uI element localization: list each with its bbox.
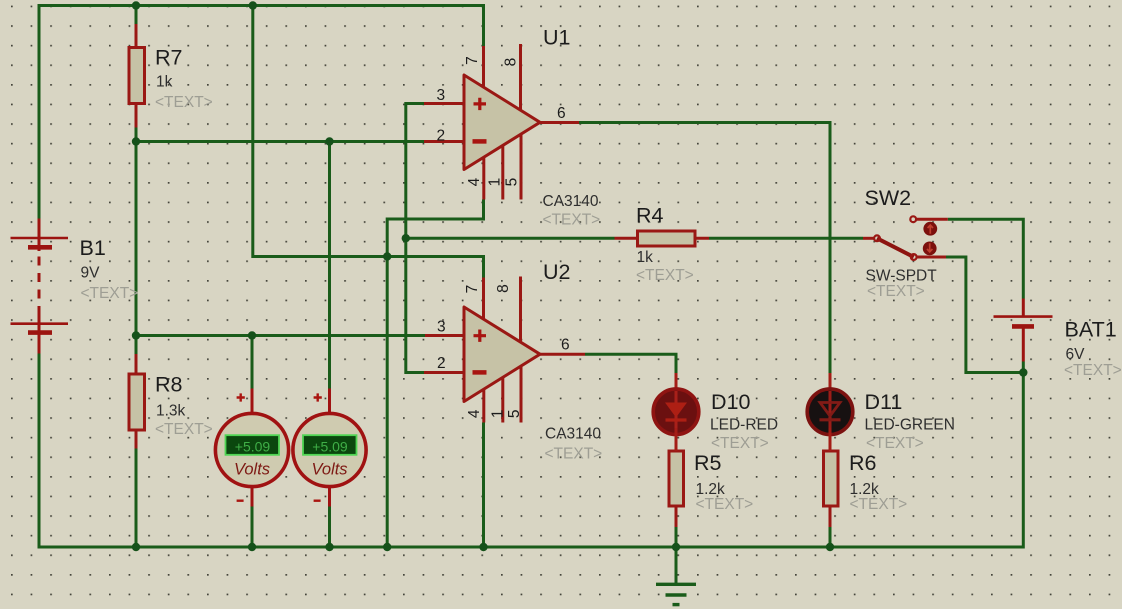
junction top rail at R7 [132,1,140,9]
ground symbol [656,584,696,604]
svg-text:Volts: Volts [311,461,347,479]
wire U1 pin4 jog down to ground rail [387,200,483,548]
switch SW2 down actuator [923,242,937,256]
svg-text:1.3k: 1.3k [156,403,186,420]
resistor R8 [129,354,145,449]
wire R4 right to switch pole [709,237,863,240]
wire left rail + top rail + U1 pin7 drop [39,6,484,219]
resistor R4 [615,231,710,246]
junction ground rail x387 [383,543,391,551]
wire bottom rail + left drop + right riser [39,353,1023,547]
LED D10 (red) [653,373,699,451]
wire U2 pin4 to ground rail [482,423,485,548]
svg-text:R8: R8 [155,373,183,397]
svg-text:<TEXT>: <TEXT> [155,421,213,438]
junction net A at R4 wire [402,234,410,242]
svg-text:6: 6 [561,337,570,354]
junction H3 at R8 top [132,331,140,339]
junction top rail at x252.8 [249,1,257,9]
battery B1 [11,219,69,354]
resistor R6 [824,434,839,527]
op-amp U1 [424,44,579,200]
wire voltmeter2 minus lead [328,507,331,548]
svg-text:6V: 6V [1066,346,1086,363]
svg-text:LED-RED: LED-RED [710,417,778,434]
svg-text:9V: 9V [81,265,101,282]
wire R8 top stub [135,336,138,355]
svg-text:CA3140: CA3140 [545,426,601,443]
wire ground stub [675,547,678,584]
junction H2 at voltmeter2 [325,137,333,145]
svg-text:R4: R4 [636,204,664,228]
svg-text:R7: R7 [155,45,182,69]
svg-text:+5.09: +5.09 [312,438,348,454]
junction ground rail voltmeter1 [248,543,256,551]
svg-text:6: 6 [557,105,566,122]
svg-text:D10: D10 [711,390,750,414]
voltmeter VM1 [215,389,288,507]
svg-text:<TEXT>: <TEXT> [155,94,213,111]
svg-text:8: 8 [495,284,512,293]
svg-text:R5: R5 [694,451,722,475]
svg-text:B1: B1 [80,236,106,260]
svg-text:1: 1 [486,178,503,187]
junction BAT1 bottom [1019,368,1027,376]
wire R7 bottom link [135,128,138,142]
svg-text:4: 4 [466,409,483,418]
svg-text:1: 1 [490,409,507,418]
wire R8 bottom [135,449,138,548]
junction ground rail R8 [132,543,140,551]
svg-text:<TEXT>: <TEXT> [711,435,769,452]
svg-text:CA3140: CA3140 [543,193,599,210]
svg-text:7: 7 [464,56,481,65]
svg-text:<TEXT>: <TEXT> [81,285,139,302]
svg-text:5: 5 [504,178,521,187]
junction ground rail R6 [826,543,834,551]
wire node H3: R8 to U2 pin3 [136,334,425,337]
svg-text:3: 3 [437,319,446,336]
svg-text:3: 3 [437,87,446,104]
svg-text:U1: U1 [543,25,570,49]
svg-text:LED-GREEN: LED-GREEN [865,417,955,434]
wire U2 output to D10 [585,354,676,373]
resistor R5 [669,434,684,527]
wire R6 bottom [829,527,832,547]
wire R7 top stub [135,6,138,25]
wire left mid rail x136 [135,142,138,336]
battery BAT1 [994,299,1053,362]
junction H2 at R7 bottom [132,137,140,145]
wire R5 bottom [675,527,678,547]
junction ground rail R5 ground [672,543,680,551]
svg-text:<TEXT>: <TEXT> [696,496,754,513]
switch SW2 up actuator [923,222,937,236]
svg-text:5: 5 [506,409,523,418]
svg-text:<TEXT>: <TEXT> [866,435,924,452]
junction ground rail U2 pin4 [479,543,487,551]
svg-text:+5.09: +5.09 [235,438,271,454]
svg-text:<TEXT>: <TEXT> [867,283,925,300]
svg-text:BAT1: BAT1 [1065,318,1117,342]
svg-text:<TEXT>: <TEXT> [850,496,908,513]
svg-text:U2: U2 [543,260,570,284]
wire R4 left net [406,237,615,240]
wire switch throw2 to BAT1 bottom junction [946,257,1023,373]
svg-text:SW2: SW2 [865,186,912,210]
wire voltmeter1 plus lead [251,336,254,389]
svg-text:D11: D11 [865,390,903,414]
switch SW2 [863,216,948,260]
wire net A: U1 pin3 to U2 pin2 [406,104,424,373]
svg-text:1k: 1k [637,249,654,266]
wire switch throw1 to BAT1 top [948,219,1024,298]
svg-text:SW-SPDT: SW-SPDT [866,267,938,284]
op-amp U2 [424,277,585,423]
svg-text:<TEXT>: <TEXT> [636,267,694,284]
svg-text:1k: 1k [156,74,173,91]
svg-text:R6: R6 [849,451,877,475]
voltmeter VM2 [293,389,366,507]
svg-text:7: 7 [464,285,481,294]
svg-text:2: 2 [437,355,446,372]
wire BAT1 bottom stub [1022,362,1025,373]
svg-text:4: 4 [466,177,483,186]
svg-text:<TEXT>: <TEXT> [545,446,603,463]
wire node H2: R7 to U1 pin2 [136,140,424,143]
svg-text:2: 2 [437,127,446,144]
wire voltmeter2 plus lead [328,142,331,389]
junction ground rail voltmeter2 [325,543,333,551]
svg-text:8: 8 [503,58,520,67]
svg-text:<TEXT>: <TEXT> [1064,362,1122,379]
svg-text:<TEXT>: <TEXT> [543,212,601,229]
svg-text:Volts: Volts [234,461,270,479]
junction H3 at voltmeter1 [248,331,256,339]
junction x387 at H4 [383,252,391,260]
wire U1 output to D11 [579,123,830,374]
resistor R7 [129,24,145,128]
wire top rail drop x252.8 to U2 pin7 [253,6,484,278]
wire voltmeter1 minus lead [251,507,254,548]
LED D11 (green, off) [807,373,853,451]
